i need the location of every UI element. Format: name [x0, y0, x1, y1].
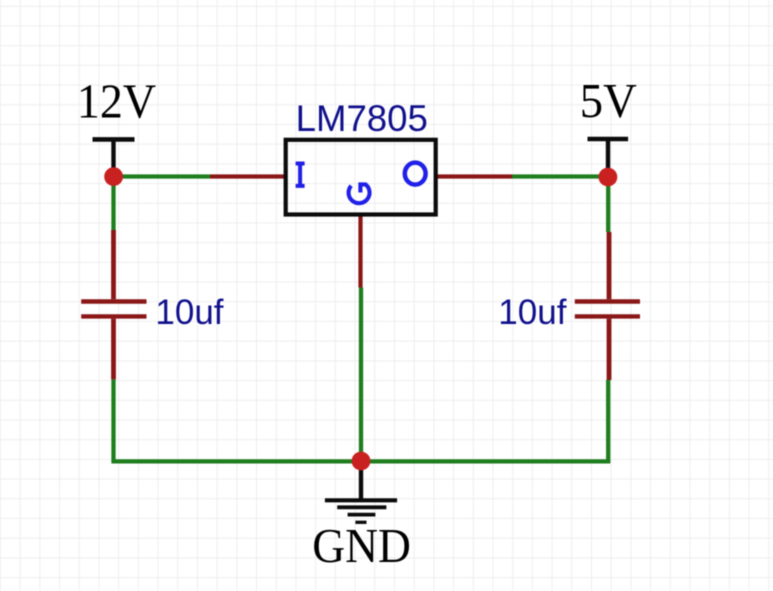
svg-text:LM7805: LM7805: [296, 98, 428, 139]
svg-text:10uf: 10uf: [498, 293, 566, 332]
svg-text:10uf: 10uf: [155, 293, 223, 332]
svg-text:5V: 5V: [580, 75, 637, 128]
svg-text:GND: GND: [312, 520, 411, 574]
svg-text:12V: 12V: [77, 75, 156, 128]
